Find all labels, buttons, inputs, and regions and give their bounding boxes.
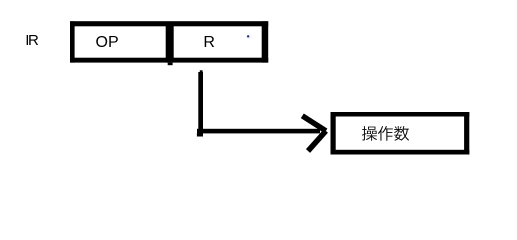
svg-text:IR: IR xyxy=(25,32,39,49)
wire corner foot xyxy=(197,133,203,137)
register box IR: right border xyxy=(262,21,269,62)
register box IR: left border xyxy=(70,21,75,62)
text 操作数 (operand) as vector paths xyxy=(362,126,409,141)
svg-text:R: R xyxy=(203,34,215,51)
wire vertical from R cell xyxy=(200,70,203,73)
operand box: top border xyxy=(331,112,470,117)
arrowhead lower stroke xyxy=(308,131,326,151)
divider stub below box xyxy=(168,63,173,66)
operand box: right border xyxy=(464,112,469,155)
arrowhead upper stroke xyxy=(302,116,326,131)
register box IR: top border xyxy=(70,21,268,26)
svg-text:OP: OP xyxy=(96,34,119,51)
wire horizontal to operand box xyxy=(197,129,320,134)
register box IR: bottom border xyxy=(70,58,268,63)
cell divider between OP and R xyxy=(166,22,174,63)
blue dot artifact xyxy=(247,35,251,39)
operand box: left border xyxy=(331,112,336,155)
operand box: bottom border xyxy=(331,150,470,155)
